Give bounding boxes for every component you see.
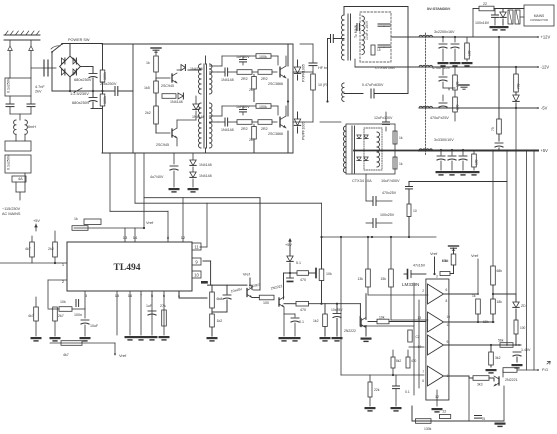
diode standby	[500, 12, 506, 17]
resistor 130k bottom	[416, 419, 432, 424]
secondary winding	[362, 16, 364, 54]
top feed wire	[344, 6, 408, 8]
wire from pin area up	[200, 153, 202, 158]
-12V rail	[419, 66, 538, 68]
cap 10x25V error	[336, 304, 338, 313]
wire choke to X2 cap	[15, 134, 17, 141]
svg-text:10uF/400V: 10uF/400V	[381, 179, 400, 183]
svg-text:1:2.5/230V: 1:2.5/230V	[70, 91, 89, 96]
ground right small	[512, 364, 523, 366]
svg-text:6: 6	[422, 379, 424, 383]
choke winding 12V	[419, 35, 433, 37]
Vref stub bottom	[114, 343, 116, 355]
comp3 inputs	[409, 346, 424, 348]
ground 3k2	[486, 369, 497, 371]
svg-text:+5V: +5V	[285, 243, 292, 247]
svg-text:470: 470	[411, 359, 417, 363]
resistor 3k2 r	[489, 352, 494, 365]
svg-text:470x25V: 470x25V	[382, 191, 397, 195]
svg-text:1uF: 1uF	[146, 304, 153, 308]
right verticals to bottom section	[492, 151, 494, 267]
svg-text:2R2: 2R2	[261, 77, 268, 81]
svg-text:4k7: 4k7	[28, 314, 34, 318]
svg-text:2R2: 2R2	[241, 77, 248, 81]
svg-text:Vref: Vref	[146, 220, 154, 225]
resistor 56k	[500, 343, 513, 348]
feedback resistor C2	[408, 330, 412, 342]
svg-text:2k2: 2k2	[145, 111, 151, 115]
grounds under left resistors	[35, 321, 37, 336]
svg-text:10uF x 160V: 10uF x 160V	[365, 20, 369, 40]
wire switch left down	[51, 52, 53, 91]
zener right	[513, 302, 519, 307]
svg-text:2N2222: 2N2222	[270, 284, 283, 290]
aux feed wire	[409, 181, 507, 183]
svg-text:0.47uFx630V: 0.47uFx630V	[362, 83, 384, 87]
base resistor 100	[259, 295, 274, 300]
wire to choke	[19, 114, 21, 120]
wire bridge to caps	[80, 66, 93, 68]
resistor 2R2 a	[237, 120, 252, 125]
svg-text:3k2: 3k2	[495, 356, 501, 360]
svg-text:68k: 68k	[497, 269, 503, 273]
svg-text:10: 10	[413, 209, 417, 213]
svg-text:-5V: -5V	[541, 106, 548, 111]
output choke core	[425, 33, 427, 156]
standby rect diode b	[364, 135, 368, 139]
transformer top stub	[205, 56, 207, 64]
resistor 2k7 vert	[252, 127, 257, 140]
ground lm339	[432, 408, 443, 410]
wire from left edge	[0, 262, 32, 264]
standby rect diode c	[357, 157, 361, 161]
collector riser 2N2222 mid	[283, 273, 285, 299]
svg-text:2R2: 2R2	[261, 127, 268, 131]
2k7 upper to mid rail	[253, 89, 255, 102]
comp outputs right	[444, 293, 479, 295]
main transformer lower winding	[342, 83, 344, 101]
svg-text:3x3300/10V: 3x3300/10V	[434, 138, 454, 142]
svg-text:ZD: ZD	[521, 304, 526, 308]
svg-text:5V STANDBY: 5V STANDBY	[427, 7, 451, 11]
svg-text:470: 470	[300, 278, 306, 282]
resistor 75	[497, 119, 502, 134]
wire collector up	[259, 198, 261, 290]
svg-text:10uF: 10uF	[90, 324, 99, 328]
svg-text:11: 11	[194, 244, 199, 249]
resistor 470 lower	[296, 301, 309, 306]
svg-text:100x25V: 100x25V	[380, 213, 395, 217]
standby mid out wire	[354, 150, 419, 152]
svg-text:8: 8	[446, 299, 448, 303]
svg-text:8k2: 8k2	[396, 359, 401, 363]
junction	[228, 71, 237, 73]
svg-text:10: 10	[194, 272, 199, 277]
driver transformer core	[203, 64, 205, 148]
bulk cap upper 680uF	[92, 67, 94, 73]
svg-text:100: 100	[520, 326, 526, 330]
LM339 body	[426, 279, 449, 400]
svg-text:100k: 100k	[103, 96, 107, 104]
svg-text:13k: 13k	[358, 277, 364, 281]
svg-text:2N2222: 2N2222	[344, 329, 356, 333]
standby dotted box	[364, 128, 382, 170]
ground -12V branch	[459, 84, 469, 86]
ground mid a	[207, 337, 218, 339]
svg-text:2.5x250V: 2.5x250V	[100, 81, 117, 86]
output connector box	[524, 5, 554, 26]
standby rect diode a	[357, 135, 361, 139]
resistor 4k7 low	[34, 307, 39, 321]
svg-text:HF tx: HF tx	[318, 66, 327, 70]
svg-text:100: 100	[456, 81, 460, 87]
svg-text:680x250V: 680x250V	[72, 100, 90, 105]
transformer bottom stub	[205, 148, 207, 153]
svg-text:56k: 56k	[498, 339, 504, 343]
TL494 IC body	[67, 242, 192, 291]
svg-text:6k8: 6k8	[217, 297, 223, 301]
standby isolation transformer	[508, 10, 513, 24]
cap below junction	[287, 277, 294, 279]
wires to main transformer	[313, 71, 341, 73]
svg-text:47x16V: 47x16V	[413, 264, 426, 268]
standby out resistor a	[393, 131, 397, 144]
svg-text:2SC945: 2SC945	[161, 84, 174, 88]
svg-text:7: 7	[422, 370, 424, 374]
resistor 1k2 mid	[210, 314, 215, 327]
svg-text:1k: 1k	[74, 217, 78, 221]
transistor Q3 2SC945 upper	[156, 77, 170, 79]
choke winding -12V	[419, 65, 433, 67]
bridge rectifier	[60, 56, 81, 77]
svg-text:100: 100	[456, 104, 460, 110]
main transformer primary winding	[342, 15, 345, 60]
sense vertical -5V to zener	[515, 108, 517, 294]
svg-text:CONNECTOR: CONNECTOR	[530, 18, 548, 22]
ground aux cap	[169, 188, 180, 190]
svg-text:~115/230V: ~115/230V	[2, 207, 21, 211]
ground zeners	[188, 188, 199, 190]
wires to mains label	[15, 182, 17, 192]
ground mid b	[279, 337, 290, 339]
svg-text:100: 100	[468, 50, 472, 56]
resistor 470 lm	[406, 357, 410, 368]
snubber resistor 10R	[311, 74, 316, 90]
svg-text:+5V: +5V	[33, 219, 40, 223]
svg-text:1k2: 1k2	[313, 319, 319, 323]
wire comp4 inputs	[340, 237, 342, 375]
cap 10uF pin3	[81, 319, 89, 321]
power switch POWER SW	[52, 44, 62, 52]
resistor 2k7 vert	[252, 77, 257, 90]
svg-text:POWER SW: POWER SW	[68, 38, 90, 42]
collector wires power stage	[287, 44, 289, 66]
aux bus	[322, 236, 437, 238]
svg-text:0.1x250V: 0.1x250V	[7, 77, 11, 93]
svg-text:2SC945: 2SC945	[156, 143, 169, 147]
cap small right	[513, 351, 521, 353]
pull-up resistor 68k a	[491, 266, 496, 285]
svg-text:PWPF1005: PWPF1005	[302, 122, 306, 140]
svg-text:1N4148: 1N4148	[170, 100, 183, 104]
ground cap bottom	[391, 407, 402, 409]
svg-text:2kV: 2kV	[35, 90, 42, 94]
svg-text:PXPR1005: PXPR1005	[302, 64, 306, 82]
grounds pins 16 7	[125, 336, 136, 338]
cap inside	[356, 24, 358, 31]
svg-text:4u7/40V: 4u7/40V	[150, 175, 164, 179]
svg-text:10x25V: 10x25V	[331, 308, 343, 312]
2k7 lower to bottom rail	[253, 139, 255, 153]
svg-text:15k: 15k	[381, 277, 387, 281]
bleeder resistor 100k lower	[102, 91, 104, 94]
wire routing under box left	[109, 153, 111, 211]
svg-text:22: 22	[483, 2, 487, 6]
resistor 2R2 b	[258, 70, 272, 75]
svg-text:4.7nF: 4.7nF	[35, 85, 45, 89]
diode 1N4148 mid	[178, 93, 183, 99]
svg-text:470uF 25V: 470uF 25V	[432, 66, 451, 70]
X capacitor 0.1x250V	[5, 78, 31, 96]
common mode choke	[14, 120, 16, 134]
svg-text:100: 100	[263, 301, 269, 305]
svg-text:0.1: 0.1	[405, 390, 410, 394]
bleeder resistor 100k upper	[102, 44, 104, 71]
svg-text:10 (R): 10 (R)	[318, 83, 328, 87]
rectifier diode PWPF1005 lower	[294, 119, 300, 125]
resistor 10k right	[319, 269, 324, 281]
ground top of driver	[155, 50, 157, 55]
resistor 2R2 b	[258, 120, 272, 125]
svg-text:-12V: -12V	[541, 65, 550, 70]
-5V rail	[419, 107, 538, 109]
standby primary winding	[343, 126, 346, 173]
power transistor 2SC3866	[279, 117, 281, 127]
svg-text:12uFx100V: 12uFx100V	[374, 116, 393, 120]
transistor PG 2N2222	[498, 377, 500, 385]
cap 75 bottom	[475, 415, 482, 417]
ground diode standby	[498, 26, 509, 28]
ground cap standby	[490, 26, 501, 28]
svg-text:10x40V: 10x40V	[230, 287, 243, 293]
svg-text:11: 11	[447, 323, 451, 327]
+12V rail	[419, 36, 538, 38]
svg-text:0.1x250V: 0.1x250V	[7, 154, 11, 170]
svg-text:1k: 1k	[146, 61, 150, 65]
aux resistor 10 vert	[407, 204, 411, 217]
svg-text:6mH: 6mH	[28, 125, 36, 129]
svg-text:4k7: 4k7	[63, 353, 69, 357]
svg-text:1N4148: 1N4148	[221, 128, 234, 132]
resistor 2R2 a	[237, 70, 252, 75]
cap 0.1 bottom	[393, 385, 400, 387]
svg-text:100k: 100k	[103, 72, 107, 80]
resistor 3k3 horizontal	[463, 375, 469, 377]
resistor top lm339	[451, 254, 456, 265]
resistor 4k7 pin1	[30, 242, 35, 257]
svg-text:AC MAINS: AC MAINS	[2, 212, 21, 216]
svg-text:2SC3866: 2SC3866	[268, 132, 283, 136]
svg-text:27k: 27k	[160, 304, 166, 308]
svg-text:1k5: 1k5	[144, 86, 150, 90]
divider resistor 700	[514, 74, 519, 92]
resistor 6k8 q	[211, 285, 213, 292]
svg-text:68k: 68k	[483, 320, 489, 324]
junction wire to error transistor	[309, 303, 361, 305]
svg-text:3k3: 3k3	[477, 383, 483, 387]
svg-text:10: 10	[447, 315, 451, 319]
error transistor 2N2222	[360, 319, 362, 327]
comparator 2	[428, 312, 444, 332]
voltage selector 1:2.5/230V	[74, 88, 82, 93]
svg-text:0.1: 0.1	[299, 320, 304, 324]
riser to aux bus	[321, 203, 323, 237]
svg-text:2R2: 2R2	[241, 127, 248, 131]
resistor 4k7 bottom	[61, 341, 82, 346]
wire inlet to filter	[9, 51, 11, 79]
svg-text:9: 9	[447, 340, 449, 344]
transistor Q4 2SC945 lower	[171, 129, 173, 137]
svg-text:100x16V: 100x16V	[475, 21, 490, 25]
pin 11 box	[192, 243, 201, 250]
svg-text:15: 15	[377, 48, 381, 52]
aux inline cap	[408, 182, 410, 187]
standby winding right	[377, 132, 380, 167]
resistor 22k bottom	[368, 382, 372, 397]
wire sec to -12V rail	[355, 66, 419, 68]
svg-text:2N2221: 2N2221	[505, 378, 518, 382]
wire comp2 low in	[359, 317, 361, 327]
-12V second caps	[442, 95, 444, 101]
long sense vertical from +12V	[498, 37, 500, 119]
comparator 4	[428, 366, 444, 386]
main transformer core	[347, 14, 349, 60]
sec caps 100n x4	[378, 23, 384, 25]
node wire mid	[208, 284, 248, 286]
resistor 100 on 12V	[465, 43, 470, 59]
drop to bottom wire	[468, 378, 470, 421]
ground bottom right	[495, 423, 506, 425]
svg-text:1k: 1k	[472, 294, 476, 298]
wire switch to box corner	[62, 43, 103, 45]
secondary dashed box	[360, 12, 391, 62]
standby cap top	[383, 121, 390, 123]
ground 22k	[365, 407, 376, 409]
svg-text:1k: 1k	[399, 136, 403, 140]
inlet pin arrows	[8, 46, 13, 51]
svg-text:3: 3	[436, 275, 438, 279]
diode 1N4148	[224, 68, 226, 76]
resistor h mid	[162, 94, 176, 99]
resistor 100 on 5V	[472, 154, 477, 167]
svg-text:LM339N: LM339N	[402, 282, 419, 287]
svg-text:75: 75	[482, 417, 486, 421]
junction bar pin10	[201, 281, 208, 284]
bulk cap lower 680uF	[92, 91, 94, 97]
ground cap error	[332, 337, 343, 339]
resistor 1R in sec	[371, 45, 375, 55]
svg-text:Vref: Vref	[243, 272, 251, 277]
svg-text:22: 22	[443, 410, 447, 414]
standby core	[351, 126, 353, 173]
bottom feedback wire	[413, 420, 504, 422]
svg-text:P.G: P.G	[542, 368, 548, 372]
svg-text:2: 2	[422, 289, 424, 293]
+5V rail	[419, 150, 538, 152]
ground right mid	[320, 337, 331, 339]
choke winding 5V	[419, 149, 433, 151]
svg-text:22k: 22k	[374, 388, 380, 392]
choke winding -5V	[419, 106, 433, 108]
svg-text:100n: 100n	[74, 313, 82, 317]
primary blocking cap	[327, 39, 329, 102]
AC mains inlet plug	[4, 34, 40, 36]
pin 10 box	[192, 271, 201, 278]
resistor 2k7 low	[53, 307, 58, 321]
bottom join wire	[91, 108, 103, 110]
input resistors 13k 15k	[366, 269, 371, 287]
cap plate right	[315, 269, 317, 278]
driver transformer T2 primary winding	[199, 64, 202, 94]
resistor 22 bottom	[439, 415, 450, 419]
svg-text:Vref: Vref	[471, 253, 479, 258]
driver box outline	[102, 43, 293, 45]
svg-text:C2: C2	[416, 335, 420, 339]
film cap box 0.1x250V	[5, 155, 31, 173]
connector plates	[43, 60, 45, 76]
svg-text:1.40V: 1.40V	[521, 348, 531, 352]
ground error transistor	[361, 338, 372, 340]
rectifier diode PXPR1005 upper	[294, 67, 300, 73]
svg-text:130k: 130k	[424, 427, 432, 431]
svg-text:1N4148: 1N4148	[199, 163, 212, 167]
svg-text:5.1: 5.1	[296, 261, 301, 265]
svg-text:4A: 4A	[18, 177, 23, 181]
wires transformer to base networks	[210, 65, 223, 67]
standby out resistor b	[393, 157, 397, 169]
svg-text:3x2200x16V: 3x2200x16V	[434, 30, 455, 34]
svg-text:+12V: +12V	[541, 35, 551, 40]
resistor 100 r	[514, 320, 518, 334]
svg-text:Vref: Vref	[430, 251, 438, 256]
ground bus under IC	[50, 342, 115, 344]
svg-text:Vref: Vref	[119, 353, 127, 358]
zener 1N4148 b	[190, 172, 196, 177]
diode 1N4148 at Q3	[177, 69, 181, 71]
resistor 2k2 pin1	[53, 242, 58, 257]
driver box inner left rail	[132, 44, 134, 153]
X2 capacitor 0.1x250V	[5, 141, 31, 151]
diode 1N4148	[224, 118, 226, 126]
wire sec to +12V rail	[391, 36, 419, 38]
driver box left edge	[102, 109, 104, 154]
comparator 1	[428, 284, 444, 304]
svg-text:470uFx25V: 470uFx25V	[430, 116, 449, 120]
wire to transistor base	[359, 304, 361, 318]
wire filter to switch	[31, 67, 48, 69]
cap at 5V sense	[498, 134, 500, 141]
svg-text:2SC3866: 2SC3866	[268, 82, 283, 86]
svg-text:TL494: TL494	[114, 263, 141, 273]
svg-text:9: 9	[195, 259, 198, 264]
svg-text:4k7: 4k7	[25, 247, 31, 251]
svg-text:6.8k: 6.8k	[442, 259, 449, 263]
pin 9 box	[192, 258, 201, 265]
svg-text:1k: 1k	[399, 162, 403, 166]
svg-text:10k: 10k	[326, 272, 332, 276]
fuse 4A	[12, 176, 26, 182]
svg-text:1k2: 1k2	[217, 319, 223, 323]
